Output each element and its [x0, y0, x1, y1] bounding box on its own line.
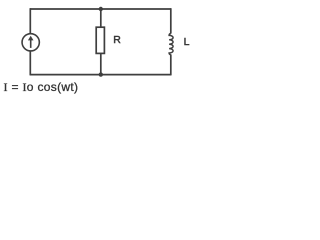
wire top rail	[30, 8, 171, 10]
wire right branch bottom	[170, 54, 172, 75]
wire left branch top	[29, 8, 31, 33]
node junction top	[99, 7, 103, 11]
svg-text:I = Io cos(wt): I = Io cos(wt)	[4, 80, 79, 94]
node junction bottom	[99, 72, 103, 76]
inductor L	[169, 33, 173, 54]
wire bottom rail	[30, 74, 171, 76]
wire middle branch bottom	[100, 53, 102, 74]
current source I1	[22, 34, 39, 51]
wire right branch top	[170, 8, 172, 33]
wire middle branch top	[100, 9, 102, 28]
wire left branch bottom	[29, 51, 31, 75]
svg-text:R: R	[113, 34, 121, 46]
resistor R	[96, 27, 104, 53]
svg-text:L: L	[184, 36, 190, 48]
